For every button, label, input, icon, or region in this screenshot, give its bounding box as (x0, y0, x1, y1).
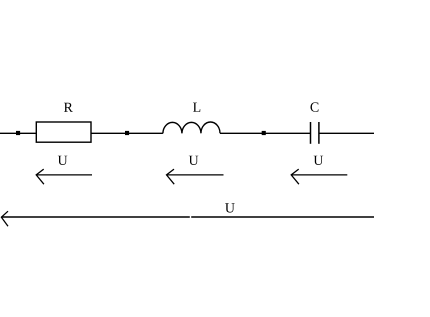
total voltage arrow U line (1, 216, 189, 218)
label C (310, 102, 318, 111)
voltage arrow U_L head (167, 169, 175, 184)
inductor L coils (163, 122, 220, 133)
total voltage arrow U line right part (191, 216, 374, 218)
label U total (225, 203, 235, 212)
label U_R (58, 156, 68, 165)
label U_C (314, 156, 324, 165)
voltage arrow U_C line (291, 174, 347, 176)
voltage arrow U_R head (36, 169, 44, 184)
capacitor C right plate (318, 122, 320, 144)
resistor R body (36, 122, 91, 142)
total voltage arrow U head (1, 211, 8, 226)
wire left of resistor (0, 132, 36, 134)
node dot 3 (262, 131, 266, 135)
label R (64, 103, 73, 112)
voltage arrow U_L line (167, 174, 224, 176)
voltage arrow U_C head (291, 169, 299, 184)
node dot 2 (125, 131, 129, 135)
label U_L (189, 156, 199, 165)
voltage arrow U_R line (36, 174, 92, 176)
node dot 1 (16, 131, 20, 135)
wire resistor to inductor (91, 132, 163, 134)
capacitor C left plate (310, 122, 312, 144)
wire right of capacitor (319, 132, 374, 134)
label L (193, 103, 200, 112)
wire inductor to capacitor (220, 132, 311, 134)
